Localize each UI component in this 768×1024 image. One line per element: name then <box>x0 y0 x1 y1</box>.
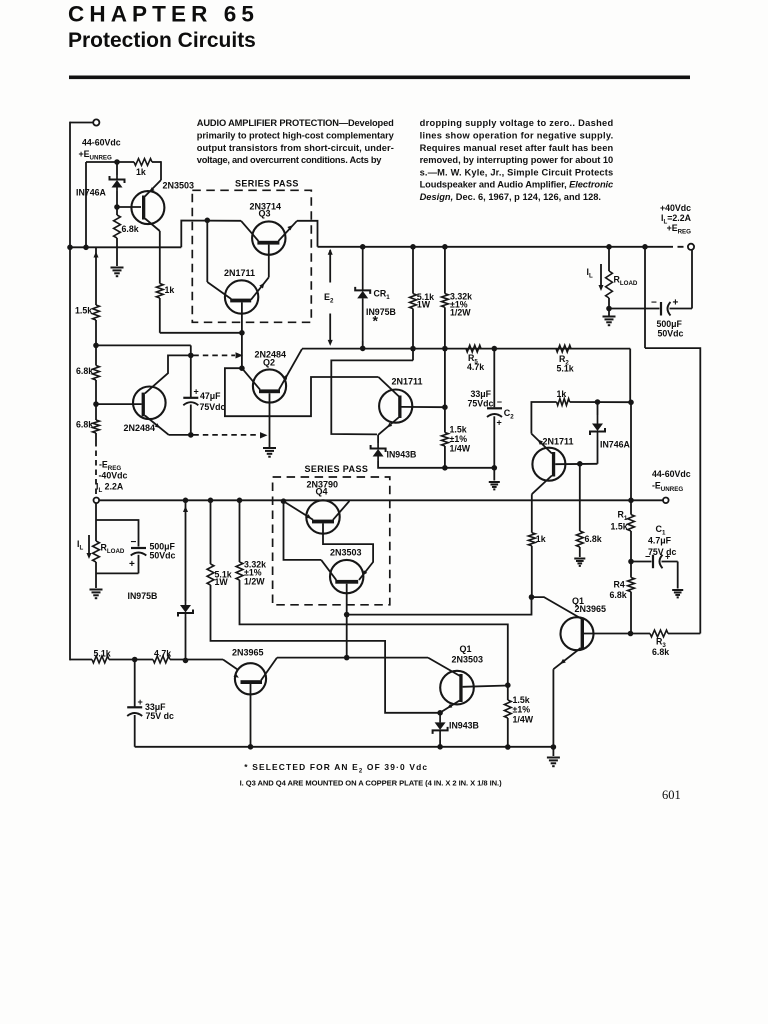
svg-text:IL: IL <box>587 267 593 280</box>
svg-text:SERIES PASS: SERIES PASS <box>305 464 369 474</box>
wire emitter 2N3503 down <box>145 219 160 232</box>
collector diagonal 2N1711 mid <box>378 377 399 397</box>
emitter diagonal Q3 <box>278 221 297 241</box>
svg-text:75Vdc: 75Vdc <box>200 402 226 412</box>
emitter arrow Q2 <box>283 374 288 380</box>
resistor 1k (right) <box>557 399 570 406</box>
resistor R2 5.1k <box>556 345 571 352</box>
svg-text:1.5k: 1.5k <box>75 306 92 316</box>
transistor 2N3503 (top-left) <box>131 191 164 224</box>
wire zener to 6.8k <box>116 191 118 215</box>
ground below R_LOAD left <box>90 590 103 599</box>
collector diagonal Q3 <box>241 221 258 241</box>
svg-text:lines show operation for n: lines show operation for negative supply… <box>420 131 614 141</box>
wire emitter down <box>250 684 252 747</box>
svg-text:50Vdc: 50Vdc <box>658 329 684 339</box>
svg-text:+EUNREG: +EUNREG <box>79 149 113 162</box>
svg-text:2N3503: 2N3503 <box>163 181 195 191</box>
transistor Q5 2N3503 <box>330 560 363 593</box>
emitter arrow 2N2484 <box>155 423 160 428</box>
svg-text:R1: R1 <box>618 510 628 523</box>
base feedback loop Q2 <box>225 368 379 416</box>
resistor 5.1k 1W (top) <box>410 244 416 250</box>
wire base 2N3503 <box>117 206 141 208</box>
ground below 6.8k <box>574 559 585 566</box>
resistor 5.1k (bottom) <box>92 656 109 663</box>
wire 1k to node <box>159 298 161 333</box>
svg-text:*: * <box>373 313 379 329</box>
resistor 1.5k (left chain) <box>95 247 97 305</box>
svg-text:I. Q3 AND Q4 ARE MOUNTED ON: I. Q3 AND Q4 ARE MOUNTED ON A COPPER PLA… <box>240 779 502 788</box>
svg-text:Loudspeaker and Audio Amplifie: Loudspeaker and Audio Amplifier, Electro… <box>420 180 614 190</box>
current arrow IL (top) <box>600 264 602 288</box>
transistor 2N2484 (left) <box>133 387 166 420</box>
svg-text:1W: 1W <box>417 300 431 310</box>
svg-text:2N2484: 2N2484 <box>124 423 156 433</box>
arrow down Ez <box>328 340 333 346</box>
ground below Q2 <box>263 448 276 457</box>
resistor 1.5k 1% (mid) <box>442 433 449 447</box>
svg-text:4.7k: 4.7k <box>467 362 484 372</box>
transistor Q4 2N3790 <box>306 500 339 533</box>
terminal -E_UNREG <box>663 498 669 504</box>
svg-text:voltage, and overcurrent condi: voltage, and overcurrent conditions. Act… <box>197 155 382 165</box>
svg-text:Q1: Q1 <box>460 644 472 654</box>
emitter arrow 2N1711 <box>259 283 264 289</box>
svg-text:2N1711: 2N1711 <box>224 268 255 278</box>
arrow up Ez <box>328 249 333 255</box>
svg-text:IN943B: IN943B <box>449 721 479 731</box>
svg-text:IN943B: IN943B <box>387 450 417 460</box>
collector diagonal Q1 2N3503 <box>428 658 460 676</box>
output terminal +40Vdc <box>688 244 694 250</box>
svg-text:2N3503: 2N3503 <box>452 655 484 665</box>
svg-text:44-60Vdc: 44-60Vdc <box>652 469 691 479</box>
junction R1 chain <box>628 400 634 406</box>
svg-text:-40Vdc: -40Vdc <box>99 471 128 481</box>
wire collector drop 2N3503 <box>160 161 162 180</box>
wire 3.32k down to 1.5k <box>444 307 446 432</box>
wire +E rail left part <box>70 246 181 248</box>
transistor 2N1711 (series pass upper) <box>225 280 258 313</box>
svg-text:1.5k: 1.5k <box>611 522 628 532</box>
emitter arrow Q4 <box>306 514 311 518</box>
svg-text:1k: 1k <box>165 285 175 295</box>
svg-text:AUDIO AMPLIFIER PROTECTION—D: AUDIO AMPLIFIER PROTECTION—Developed <box>197 118 394 128</box>
svg-text:6.8k: 6.8k <box>122 224 139 234</box>
svg-text:2N1711: 2N1711 <box>392 377 423 387</box>
wire to 47uF cap <box>96 344 191 346</box>
svg-text:1.5k: 1.5k <box>450 425 467 435</box>
wire base to R3 <box>584 633 631 635</box>
svg-text:4.7μF: 4.7μF <box>648 536 672 546</box>
wire left rail vertical <box>69 122 71 661</box>
capacitor 500uF 50Vdc (left) <box>96 520 139 547</box>
resistor 4.7k (bottom) <box>153 656 170 663</box>
svg-text:1/2W: 1/2W <box>244 577 265 587</box>
transistor 2N3965 (bottom) <box>235 663 266 694</box>
resistor 1k (top-left) <box>134 159 152 166</box>
wire terminal to left rail <box>70 122 93 124</box>
junction base 2N2484 <box>93 401 99 407</box>
wire rail corner down <box>629 349 631 403</box>
wire base to 1.5k node <box>463 686 508 687</box>
svg-text:2N1711: 2N1711 <box>543 437 574 447</box>
svg-text:1k: 1k <box>536 534 546 544</box>
emitter diagonal Q4 <box>284 501 314 520</box>
svg-text:Q2: Q2 <box>263 358 275 368</box>
capacitor C1 4.7uF <box>631 561 652 563</box>
emitter arrow Q5 <box>363 570 368 575</box>
svg-text:Protection Circuits: Protection Circuits <box>68 29 256 52</box>
emitter arrow Q1 <box>560 659 566 664</box>
capacitor 500uF 50Vdc (top right) <box>609 308 660 310</box>
capacitor C2 33uF <box>493 349 495 408</box>
wire 2N1711 base down <box>241 302 243 332</box>
transistor 2N1711 (right) <box>532 448 565 481</box>
svg-text:removed, by interrupting power: removed, by interrupting power for about… <box>420 155 614 165</box>
svg-text:CR1: CR1 <box>374 289 391 302</box>
transistor Q2 2N2484 <box>253 369 286 402</box>
svg-text:1/4W: 1/4W <box>450 444 471 454</box>
resistor R4 6.8k <box>630 562 632 578</box>
wire -E_UNREG rail <box>99 499 663 501</box>
resistor 6.8k (left chain lower) <box>93 420 100 433</box>
svg-text:+: + <box>497 418 502 428</box>
emitter arrow <box>447 704 452 708</box>
wire Q3 base down <box>268 245 270 278</box>
svg-text:C2: C2 <box>504 408 515 421</box>
svg-text:6.8k: 6.8k <box>652 647 669 657</box>
svg-text:33μF: 33μF <box>471 389 492 399</box>
wire rail jog up to series pass <box>181 221 241 248</box>
zener CR1 IN975B <box>360 244 366 250</box>
svg-text:1k: 1k <box>136 167 146 177</box>
resistor R3 6.8k <box>650 630 668 637</box>
ground (top-left) <box>111 268 124 277</box>
wire bottom rail <box>135 746 554 748</box>
collector diagonal Q2 <box>242 368 260 389</box>
svg-text:2N3965: 2N3965 <box>575 604 607 614</box>
emitter diagonal Q2 <box>279 349 302 390</box>
wire base to 1.5k node <box>402 406 445 408</box>
svg-text:50Vdc: 50Vdc <box>150 551 176 561</box>
ground below C1 <box>672 590 683 597</box>
resistor R5 4.7k <box>466 345 481 352</box>
svg-text:Requires manual reset after fa: Requires manual reset after fault has be… <box>420 143 614 153</box>
zener IN975B (left) <box>185 500 187 601</box>
resistor R_LOAD (top right) <box>606 244 612 250</box>
ground bottom <box>547 758 560 767</box>
svg-text:RLOAD: RLOAD <box>101 543 125 556</box>
collector 2N2484 up <box>145 355 191 393</box>
svg-text:1W: 1W <box>215 577 229 587</box>
wire right edge vertical <box>645 348 700 633</box>
svg-text:+EREG: +EREG <box>667 223 692 235</box>
svg-text:1k: 1k <box>557 389 567 399</box>
wire Q3 emitter to +40V rail <box>297 221 318 247</box>
wire dashed rail segment <box>667 246 688 248</box>
emitter arrow <box>538 440 544 445</box>
svg-text:6.8k: 6.8k <box>610 590 627 600</box>
collector diagonal down <box>532 476 552 495</box>
wire base to IN746A <box>555 463 597 465</box>
svg-text:+: + <box>194 387 199 397</box>
junction base node <box>239 330 245 336</box>
ground below R_LOAD top <box>608 309 610 316</box>
svg-text:6.8k: 6.8k <box>76 366 93 376</box>
header rule <box>69 76 690 80</box>
svg-text:±1%: ±1% <box>513 705 531 715</box>
wire base 2N2484 <box>96 403 142 405</box>
transistor Q1 2N3965 (right) <box>561 617 594 650</box>
collector diagonal 2N3965 <box>261 658 277 681</box>
collector diagonal Q5 <box>321 560 336 580</box>
junction left rail <box>67 245 73 251</box>
svg-text:6.8k: 6.8k <box>76 420 93 430</box>
collector diagonal 2N1711 <box>207 282 231 299</box>
svg-text:IN746A: IN746A <box>600 440 630 450</box>
svg-text:CHAPTER 65: CHAPTER 65 <box>68 2 259 27</box>
resistor 5.1k 1W (mid) <box>210 500 212 564</box>
junction Q2 collector node <box>239 365 245 371</box>
svg-text:SERIES PASS: SERIES PASS <box>235 179 299 189</box>
node base 2N3503 <box>114 204 120 210</box>
svg-text:1/4W: 1/4W <box>513 715 534 725</box>
resistor 1k (below 2N3503) <box>156 284 163 299</box>
svg-text:75V dc: 75V dc <box>146 711 174 721</box>
emitter arrow 2N3503 <box>150 187 155 192</box>
resistor 1k (below rail) <box>528 533 535 546</box>
emitter Q1 2N3965 down <box>553 648 580 669</box>
zener IN943B (bottom) <box>433 713 448 740</box>
wire +40V output rail <box>318 246 668 248</box>
emitter diagonal <box>531 434 552 454</box>
svg-text:R4: R4 <box>614 580 625 590</box>
emitter arrow 2N3965 <box>233 673 238 678</box>
wire collector down crossing rail <box>531 494 533 533</box>
transistor Q1 2N3503 (bottom) <box>440 671 474 705</box>
svg-text:500μF: 500μF <box>657 319 683 329</box>
wire zener to C2 ground line <box>378 461 494 468</box>
resistor 1.5k 1% (bottom) <box>504 700 511 718</box>
svg-text:Q3: Q3 <box>259 209 271 219</box>
svg-text:6.8k: 6.8k <box>585 534 602 544</box>
wire node down to Q2 <box>241 333 243 368</box>
emitter arrow Q3 <box>287 225 293 230</box>
resistor R1 1.5k <box>630 402 632 500</box>
wire to ground <box>493 468 495 481</box>
wire Q2 base to ground <box>269 393 271 447</box>
zener IN943B (upper) <box>377 435 379 443</box>
terminal left -E <box>94 498 100 504</box>
svg-text:+: + <box>129 559 135 570</box>
svg-text:E2: E2 <box>324 292 334 305</box>
wire Q5 node to Q1 collector riser <box>347 597 532 615</box>
input terminal +E_UNREG <box>93 119 99 125</box>
resistor 3.32k (mid) <box>239 500 241 562</box>
junction 1.5k chain <box>93 343 99 349</box>
collector diagonal Q4 <box>333 501 349 520</box>
svg-text:−: − <box>651 298 657 309</box>
wire node down to 2N1711 <box>206 220 208 282</box>
wire 6.8k to ground <box>116 238 118 266</box>
svg-text:Design, Dec. 6, 1967, p 124, 1: Design, Dec. 6, 1967, p 124, 126, and 12… <box>420 192 601 202</box>
wire 5.1k chain to IN943B node <box>211 585 441 713</box>
wire top box left side <box>85 162 87 247</box>
measure arrow Ez <box>329 250 331 283</box>
base diagonal 2N3965 <box>223 660 238 670</box>
svg-text:5.1k: 5.1k <box>557 364 574 374</box>
svg-text:44-60Vdc: 44-60Vdc <box>82 138 121 148</box>
svg-text:+: + <box>665 552 670 562</box>
svg-text:2N3965: 2N3965 <box>232 648 264 658</box>
svg-text:601: 601 <box>662 788 681 802</box>
svg-text:s.—M. W. Kyle, Jr., Simple Cir: s.—M. W. Kyle, Jr., Simple Circuit Prote… <box>420 167 614 177</box>
svg-text:output transistors from short-: output transistors from short-circuit, u… <box>197 143 394 153</box>
svg-text:2N3503: 2N3503 <box>330 548 362 558</box>
junction node collector <box>205 218 211 224</box>
svg-text:Q4: Q4 <box>316 487 328 497</box>
wire link from 5.1k line <box>331 360 413 434</box>
svg-text:primarily to protect high-cost: primarily to protect high-cost complemen… <box>197 131 395 141</box>
wire collector rail y=657.6 <box>277 657 428 659</box>
svg-text:±1%: ±1% <box>450 434 468 444</box>
arrow up IN975B line <box>183 506 188 512</box>
svg-text:1.5k: 1.5k <box>513 695 530 705</box>
svg-text:+: + <box>673 298 679 309</box>
svg-text:dropping supply voltage to: dropping supply voltage to zero.. Dashed <box>420 118 614 128</box>
wire 3.32k chain to 1.5k <box>240 580 508 685</box>
resistor 6.8k (top-left) <box>114 215 121 238</box>
emitter 2N1711 mid down <box>378 418 399 435</box>
wire Q4 base to Q5 <box>323 523 373 580</box>
junction Q4 emitter <box>281 498 287 504</box>
wire Q5 base down <box>346 584 348 615</box>
svg-text:IN975B: IN975B <box>366 307 396 317</box>
wire 1k to collector corner <box>152 161 161 163</box>
wire to resistor 1k top <box>86 161 134 163</box>
svg-text:IL: IL <box>77 539 83 552</box>
svg-text:75Vdc: 75Vdc <box>468 399 494 409</box>
emitter Q1 2N3503 down <box>440 701 460 713</box>
transistor Q3 2N3714 <box>252 221 285 254</box>
svg-text:−: − <box>497 397 502 407</box>
dashed box SERIES PASS (lower) <box>273 477 390 605</box>
svg-text:IL 2.2A: IL 2.2A <box>96 482 124 494</box>
svg-text:4.7k: 4.7k <box>154 649 171 659</box>
capacitor 33uF 75Vdc (bottom left) <box>134 660 136 707</box>
junction <box>83 245 89 251</box>
dashed arrow (negative supply) lower <box>193 434 259 436</box>
resistor R_LOAD (left) <box>95 503 97 541</box>
dashed wire to -E terminal <box>95 441 97 497</box>
transistor 2N1711 (middle) <box>379 390 412 423</box>
arrow up on chain <box>93 252 98 258</box>
emitter 2N2484 down <box>145 416 169 435</box>
svg-text:* SELECTED FOR AN E2 OF 39·0: * SELECTED FOR AN E2 OF 39·0 Vdc <box>244 762 427 774</box>
resistor 6.8k (mid right) <box>579 464 581 531</box>
wire horizontal to 2N1711 base node <box>160 332 242 334</box>
svg-text:1/2W: 1/2W <box>450 308 471 318</box>
wire bottom 5.1k/4.7k line <box>70 659 92 661</box>
svg-text:+40Vdc: +40Vdc <box>660 203 691 213</box>
current arrow IL (left) <box>88 535 90 556</box>
emitter diagonal 2N1711 to Q3 base <box>251 277 269 299</box>
resistor 3.32k (top) <box>442 244 448 250</box>
wire mid rail <box>302 348 630 350</box>
wire 1k line (right) <box>531 402 556 434</box>
junction collector node <box>529 594 535 600</box>
svg-text:−: − <box>131 537 137 548</box>
svg-text:RLOAD: RLOAD <box>614 275 638 288</box>
wire +40V tap down right side <box>642 244 648 250</box>
svg-text:IN975B: IN975B <box>128 591 158 601</box>
svg-text:−: − <box>645 552 650 562</box>
zener IN746A (top-left) <box>116 162 118 175</box>
svg-text:75V dc: 75V dc <box>648 547 676 557</box>
wire Q5 collector to rail node <box>284 501 322 560</box>
dashed arrow (negative supply) upper <box>193 354 235 356</box>
wire collector node to Q1 2N3965 <box>532 597 582 618</box>
emitter arrow 2N1711 mid <box>387 423 392 428</box>
svg-text:+: + <box>138 697 143 707</box>
junction C2 tap <box>492 346 498 352</box>
svg-text:47μF: 47μF <box>200 391 221 401</box>
svg-text:IN746A: IN746A <box>76 188 106 198</box>
svg-text:5.1k: 5.1k <box>94 649 111 659</box>
wire cap to +40V terminal <box>691 250 693 309</box>
ground below C2 <box>489 482 500 489</box>
zener IN746A (right) <box>597 440 599 464</box>
dashed box SERIES PASS (upper) <box>192 190 311 322</box>
resistor 6.8k (left chain upper) <box>93 366 100 381</box>
svg-text:-EUNREG: -EUNREG <box>652 481 683 493</box>
